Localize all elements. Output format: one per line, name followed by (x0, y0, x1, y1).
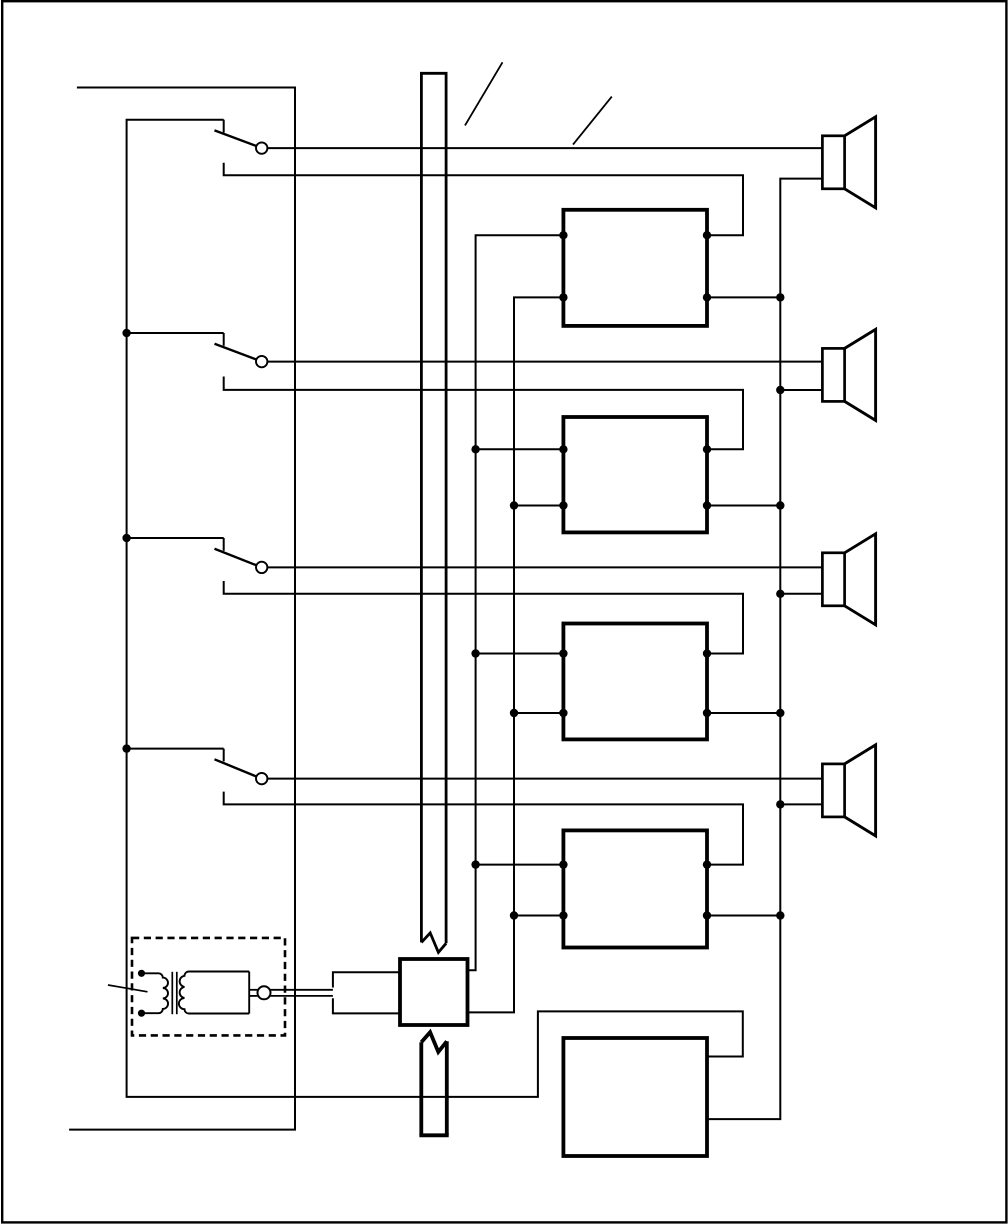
transformer T1 core (172, 972, 177, 1014)
plug circle (258, 986, 271, 999)
wire common riser A: amp left-top pins to connector box (468, 235, 564, 970)
wire switch S1 output to speaker LS1 (267, 147, 822, 149)
switch S4 (215, 749, 268, 785)
pin dots amp U4 (559, 860, 567, 868)
wire speaker LS2 return stub (780, 389, 822, 391)
node: S4 feed tap (122, 744, 130, 752)
wire main left riser down to bottom loop and to master amplifier box (127, 120, 743, 1097)
node: riser C at U1 RB (776, 293, 784, 301)
wire common riser B: amp left-bottom pins to connector box (468, 297, 564, 1012)
leader line upper-left (to cable) (465, 62, 503, 125)
speaker cable bus (lower continuation with break) (419, 1032, 448, 1135)
wire switch S4 output to speaker LS4 (267, 778, 822, 780)
wire switch S2 output to speaker LS2 (267, 361, 822, 363)
amplifier box U2 (563, 417, 707, 532)
wire speaker LS4 return stub (780, 803, 822, 805)
speaker LS4 (822, 745, 875, 836)
transformer T1 secondary winding and output loop (179, 972, 249, 1014)
wire amp U3 right-bottom stub (707, 712, 780, 714)
node: S3 feed tap (122, 534, 130, 542)
speaker LS1 (822, 117, 875, 208)
leader line upper-right (to wire) (573, 97, 612, 145)
node: riser B at U4 (510, 911, 518, 919)
node: riser C at U4 RB (776, 911, 784, 919)
wire amp U2 left-bottom stub (514, 505, 563, 507)
wire amp U4 right-bottom stub (707, 915, 780, 917)
master amplifier box (bottom) (563, 1038, 707, 1156)
transformer T1 primary terminal dots (138, 970, 145, 1017)
wire amp U2 left-top stub (476, 448, 564, 450)
node: riser A at U2 (471, 445, 479, 453)
node: riser C at U3 RB (776, 709, 784, 717)
wire amp U3 left-top stub (476, 653, 564, 655)
wire return S3 to amp U3 right-top pin (224, 581, 743, 654)
twin cable from plug circle to plug body (249, 990, 333, 996)
wire return S1 to amp U1 right-top pin (224, 163, 743, 235)
speaker LS2 (822, 329, 875, 420)
pin dots amp U2 (559, 445, 567, 453)
wire speaker LS3 return stub (780, 593, 822, 595)
wire feed to switch S4 (127, 748, 224, 750)
wire common riser C: speaker returns down to master amplifier box (707, 179, 822, 1120)
node: riser C at LS3 (776, 590, 784, 598)
node: riser C at LS2 (776, 386, 784, 394)
amplifier box U4 (563, 830, 707, 947)
pin dots amp U3 (559, 649, 567, 657)
speaker cable bus (upper run with break) (420, 73, 448, 952)
node: riser B at U2 (510, 501, 518, 509)
wire amp U1 right-bottom stub (707, 296, 780, 298)
node: riser A at U3 (471, 649, 479, 657)
wire feed to switch S2 (127, 332, 224, 334)
amplifier box U3 (563, 624, 707, 740)
wire amp U4 left-top stub (476, 864, 564, 866)
wire amp U4 left-bottom stub (514, 915, 563, 917)
connector box (cable junction) (400, 959, 468, 1025)
plug body (333, 972, 400, 1013)
wire return S2 to amp U2 right-top pin (224, 377, 743, 450)
switch S2 (215, 333, 268, 367)
node: riser B at U3 (510, 709, 518, 717)
pin dots amp U1 (559, 231, 567, 239)
amplifier box U1 (563, 210, 707, 326)
node: riser A at U4 (471, 860, 479, 868)
wire feed to switch S3 (127, 537, 224, 539)
node: riser C at LS4 (776, 800, 784, 808)
wire amp U2 right-bottom stub (707, 505, 780, 507)
wire switch S3 output to speaker LS3 (267, 566, 822, 568)
node: riser C at U2 RB (776, 501, 784, 509)
wire return S4 to amp U4 right-top pin (224, 792, 743, 865)
switch S3 (215, 538, 268, 573)
switch S1 (215, 120, 268, 154)
transformer T1 primary winding (145, 973, 168, 1013)
speaker LS3 (822, 534, 875, 625)
node: S2 feed tap (122, 329, 130, 337)
wire amp U3 left-bottom stub (514, 712, 563, 714)
leader line to transformer (108, 985, 148, 992)
wire feed pair from master unit: top feed, right vertical, bottom return (69, 88, 295, 1130)
transformer T1 dashed enclosure (132, 938, 285, 1036)
